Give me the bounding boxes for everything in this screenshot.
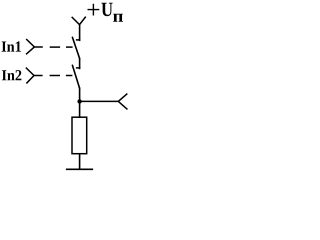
ground bar [66,168,93,170]
terminal fork In1 [27,40,35,54]
wire In2 stub [34,75,43,77]
dashed control link In1 to S1 [50,46,60,48]
dash 2 of In1 link [66,46,73,48]
label In2 [2,70,22,80]
label subscript n (Cyrillic pe) of +Un [113,14,123,22]
label In1 [2,41,21,51]
terminal fork output [118,94,127,109]
wire S2 down to resistor R [79,88,81,117]
terminal fork +Un [72,17,85,24]
switch S2 movable contact [72,65,79,88]
terminal fork In2 [26,68,34,83]
switch S1 fixed contact tick [76,39,80,41]
switch S1 movable contact [72,37,79,59]
wire +Un fork to switch S1 [79,25,81,41]
wire S1 to S2 [79,59,81,69]
resistor R body [72,117,87,154]
node junction dot [77,99,81,103]
dashed control link In2 to S2 [50,75,60,77]
wire resistor to ground [79,154,81,170]
label U of +Un [101,3,112,16]
dash 2 of In2 link [66,75,73,77]
wire In1 stub [34,46,42,48]
switch S2 fixed contact tick [76,67,80,69]
label +U (supply) plus sign [88,4,100,16]
wire node to output fork [80,100,119,102]
